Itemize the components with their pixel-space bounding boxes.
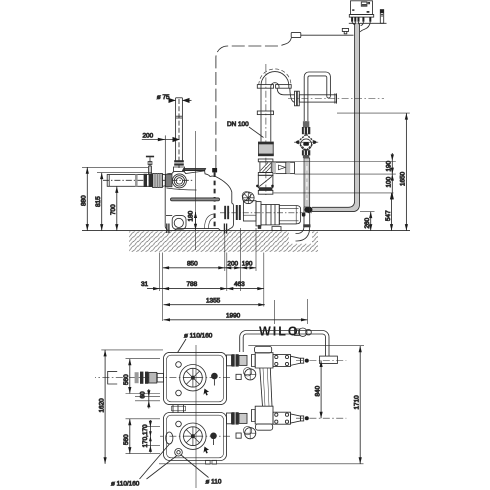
coupling pieces <box>135 372 139 383</box>
display <box>361 2 367 6</box>
svg-text:815: 815 <box>95 196 102 207</box>
svg-text:547: 547 <box>385 210 392 221</box>
547 <box>391 193 393 231</box>
right dimensions <box>273 113 410 231</box>
float cable gland + dashed cable <box>212 168 217 172</box>
valve pipe and diamond valve <box>294 72 330 241</box>
pedestal <box>272 227 281 231</box>
centerline dashed <box>178 99 180 168</box>
inlet block dark <box>166 174 172 187</box>
blank flange oval <box>166 432 173 444</box>
svg-text:DN 100: DN 100 <box>227 121 249 128</box>
svg-text:100: 100 <box>386 176 393 187</box>
flange pair at horizontal pipe start <box>295 91 297 106</box>
foot <box>258 225 261 229</box>
60 <box>135 396 160 398</box>
knob <box>210 433 217 440</box>
valve bonnet top <box>303 121 309 127</box>
svg-text:1650: 1650 <box>400 171 407 186</box>
svg-text:788: 788 <box>187 281 198 288</box>
cable gland blob <box>305 207 313 213</box>
drain stub bottom <box>236 433 241 438</box>
row2: 31 788 463 <box>147 288 264 290</box>
internal suction arc <box>205 214 216 229</box>
svg-text:ø 110/160: ø 110/160 <box>111 481 140 488</box>
baseline <box>159 463 364 465</box>
svg-text:ø 110/160: ø 110/160 <box>184 333 213 340</box>
branch box with flow arrow <box>273 162 295 173</box>
vertical centerline <box>265 64 267 195</box>
flange <box>258 173 273 176</box>
valve bonnet bottom <box>302 150 310 155</box>
projection centerline <box>195 131 197 250</box>
left leg down <box>260 88 262 141</box>
flanges under U <box>257 85 273 89</box>
socket <box>380 10 383 24</box>
motor <box>279 206 300 224</box>
170,170 <box>145 426 160 428</box>
fan cover <box>180 365 206 391</box>
tee block bottom <box>255 406 273 424</box>
840 <box>320 361 322 419</box>
svg-text:200: 200 <box>227 260 238 267</box>
bands <box>135 175 138 187</box>
drain stub top <box>236 374 241 379</box>
svg-text:880: 880 <box>81 195 88 206</box>
gate valve handle <box>146 156 154 158</box>
bolts left <box>176 362 182 368</box>
centerline <box>103 179 193 181</box>
staple loop over horizontal pipe <box>304 72 330 121</box>
tee block top <box>255 353 273 368</box>
elbow down to pump outlet <box>296 207 305 234</box>
suction flange bars <box>224 206 226 219</box>
svg-text:170,170: 170,170 <box>142 424 149 448</box>
vertical centerline both blocks <box>195 345 197 488</box>
body lines <box>167 188 197 190</box>
centerline dashes <box>288 98 384 100</box>
vent pipe d75 <box>142 94 192 176</box>
bottom-left boss <box>172 216 186 230</box>
pipe body <box>107 175 152 187</box>
joint band <box>176 115 183 117</box>
volute <box>256 202 261 226</box>
flange plate at pipe end <box>320 356 338 363</box>
discharge DN100 <box>227 64 384 195</box>
svg-text:463: 463 <box>234 281 245 288</box>
row4: 1990 <box>164 319 308 321</box>
extension lines <box>337 112 410 114</box>
valve wheel bottom <box>245 428 256 439</box>
815 <box>97 172 152 174</box>
diamond body <box>297 134 314 150</box>
coupling dark bands <box>174 160 184 165</box>
knobs <box>352 9 354 11</box>
svg-text:1710: 1710 <box>354 395 361 410</box>
left dimensions <box>81 167 152 230</box>
1650 <box>405 113 407 231</box>
casing <box>261 205 279 225</box>
wall box left with cable <box>291 32 301 37</box>
wires from terminals into conduit <box>352 22 355 25</box>
top cover dark bar <box>183 169 206 171</box>
svg-text:31: 31 <box>141 281 149 288</box>
560 bottom <box>126 418 161 420</box>
tank <box>165 131 241 250</box>
knob <box>211 373 218 380</box>
control box <box>216 1 387 168</box>
svg-text:1990: 1990 <box>226 312 241 319</box>
svg-text:560: 560 <box>123 434 130 445</box>
gray fill of conduit run <box>312 23 360 211</box>
flange on left leg <box>257 111 273 115</box>
check valve body <box>258 175 273 187</box>
floor hatch <box>129 231 318 252</box>
row1: 850 200 190 <box>163 267 256 269</box>
small elbow on left of conduit top <box>342 28 348 31</box>
centerline <box>220 212 312 214</box>
riser between tees <box>260 368 263 406</box>
conduit <box>302 22 371 217</box>
svg-text:700: 700 <box>110 204 117 215</box>
inlet coupling circle <box>172 174 186 188</box>
260 <box>370 212 372 231</box>
inlet stub <box>108 371 118 384</box>
bottom dimension rows <box>141 228 308 324</box>
cursor arrow <box>204 447 210 454</box>
overhead pipe <box>240 331 329 357</box>
inverted U bend <box>261 72 289 88</box>
1620 <box>101 349 163 351</box>
bottom discharge line <box>227 413 232 424</box>
top pump block <box>95 352 230 412</box>
horizontal pipe <box>299 95 336 102</box>
tee top plate <box>255 346 272 353</box>
tank outline <box>165 171 233 231</box>
right leg elbow into horizontal pipe <box>277 88 294 95</box>
svg-text:190: 190 <box>242 260 253 267</box>
560 top <box>126 358 161 360</box>
svg-text:1355: 1355 <box>206 297 221 304</box>
gray pipe through valve and below <box>304 121 308 127</box>
rubber coupling <box>259 144 274 155</box>
manifold <box>227 346 347 439</box>
extension verticals <box>159 253 161 292</box>
shelf line <box>349 22 387 24</box>
corrugated section <box>153 174 163 188</box>
handle slot <box>171 198 220 201</box>
connector between blocks <box>173 405 184 413</box>
row3: 1355 <box>164 304 265 306</box>
spool with section hatch <box>260 162 271 173</box>
700 <box>116 186 118 230</box>
union on pipe <box>299 328 307 336</box>
svg-text:260: 260 <box>364 217 371 228</box>
svg-text:WILO: WILO <box>259 325 300 339</box>
bolts left <box>176 421 182 427</box>
top discharge line <box>227 355 232 366</box>
svg-text:840: 840 <box>314 385 321 396</box>
handwheel <box>243 192 255 204</box>
connector to tank <box>162 174 167 186</box>
terminals <box>351 17 371 22</box>
phantom dashed arc above <box>259 69 291 85</box>
vent socket on top <box>174 167 185 172</box>
spool with bolts <box>273 355 291 367</box>
inlet assembly <box>103 157 193 188</box>
cone + dot <box>291 356 301 365</box>
floor line <box>82 230 410 232</box>
bottom pump block <box>160 345 230 488</box>
svg-text:560: 560 <box>123 374 130 385</box>
svg-text:ø 75: ø 75 <box>157 94 170 101</box>
pump <box>220 192 312 231</box>
880 <box>82 166 148 168</box>
1710 <box>248 345 364 347</box>
anchor bolts <box>166 224 168 234</box>
suction valve body <box>243 201 256 221</box>
190 <box>391 153 393 198</box>
svg-text:60: 60 <box>140 391 147 399</box>
flange below <box>258 159 273 162</box>
svg-text:1620: 1620 <box>98 398 105 413</box>
cursor arrow <box>204 389 210 396</box>
fan cover <box>180 423 206 449</box>
svg-text:180: 180 <box>188 210 195 221</box>
svg-text:200: 200 <box>143 133 154 140</box>
valve wheel top <box>245 369 256 380</box>
svg-text:850: 850 <box>187 260 198 267</box>
svg-text:ø 110: ø 110 <box>206 479 222 486</box>
